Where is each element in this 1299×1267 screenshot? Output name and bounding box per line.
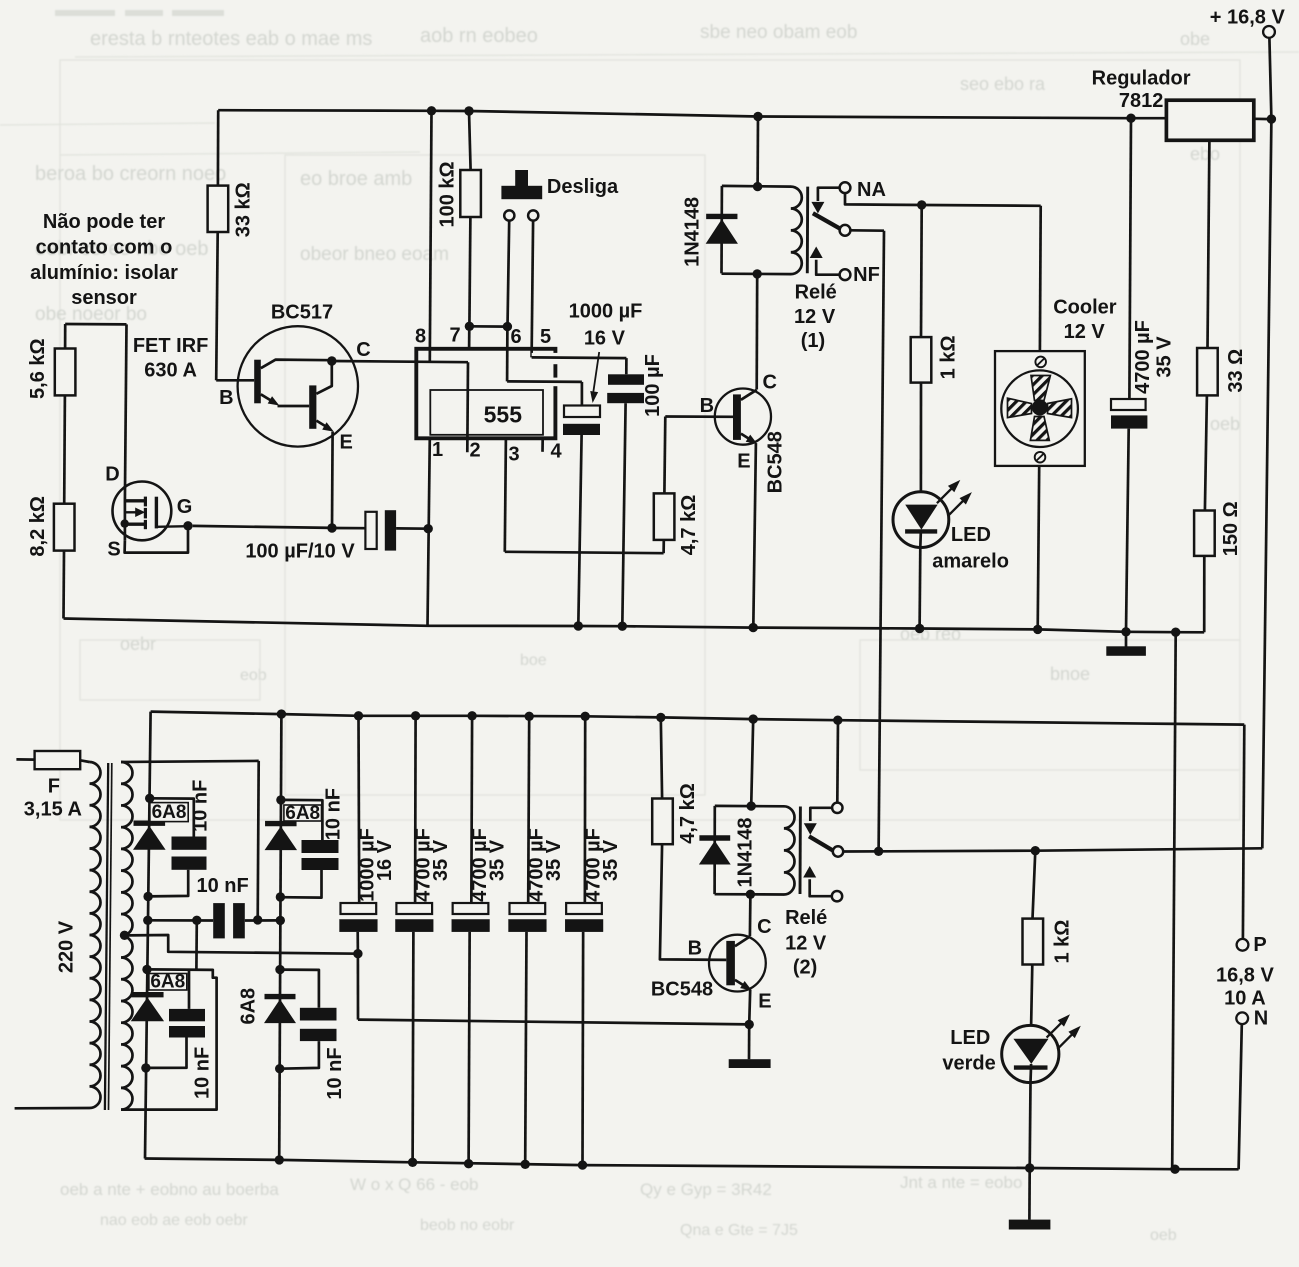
svg-text:6A8: 6A8 (152, 802, 187, 823)
svg-text:100 kΩ: 100 kΩ (437, 161, 459, 227)
svg-text:C: C (762, 372, 776, 394)
svg-text:150 Ω: 150 Ω (1220, 501, 1242, 556)
svg-text:Regulador: Regulador (1092, 67, 1191, 89)
svg-text:1 kΩ: 1 kΩ (938, 335, 960, 379)
svg-text:5: 5 (540, 326, 551, 348)
svg-text:verde: verde (942, 1052, 995, 1074)
svg-text:100 µF/10 V: 100 µF/10 V (245, 541, 355, 563)
svg-text:35 V: 35 V (1154, 336, 1176, 378)
svg-text:+ 16,8 V: + 16,8 V (1210, 6, 1286, 28)
svg-text:sensor: sensor (71, 287, 137, 309)
svg-text:10 nF: 10 nF (196, 875, 248, 897)
svg-text:6A8: 6A8 (238, 988, 260, 1025)
svg-text:10 nF: 10 nF (322, 788, 344, 840)
svg-text:1: 1 (432, 439, 443, 461)
svg-text:C: C (757, 916, 771, 938)
svg-text:10 nF: 10 nF (190, 780, 212, 832)
svg-text:bnoe: bnoe (1050, 664, 1090, 684)
svg-text:F: F (48, 776, 60, 798)
svg-text:P: P (1253, 934, 1266, 956)
svg-text:100 µF: 100 µF (642, 354, 664, 417)
svg-text:eob: eob (240, 667, 267, 684)
svg-text:Relé: Relé (795, 281, 837, 303)
svg-text:35 V: 35 V (600, 839, 622, 881)
svg-text:oeb reo: oeb reo (900, 624, 961, 644)
svg-text:8: 8 (415, 326, 426, 348)
svg-text:33 kΩ: 33 kΩ (233, 182, 255, 237)
svg-text:alumínio: isolar: alumínio: isolar (30, 262, 178, 284)
svg-text:sbe neo obam eob: sbe neo obam eob (700, 22, 857, 43)
svg-text:B: B (700, 395, 714, 417)
svg-text:beroa bo creorn noeo: beroa bo creorn noeo (35, 163, 226, 185)
svg-text:BC548: BC548 (765, 431, 787, 493)
svg-text:W o x Q 66 - eob: W o x Q 66 - eob (350, 1175, 479, 1194)
svg-text:3: 3 (508, 444, 519, 466)
svg-text:4: 4 (550, 441, 562, 463)
svg-text:16 V: 16 V (374, 839, 396, 881)
svg-text:(2): (2) (793, 957, 817, 979)
svg-text:beob no eobr: beob no eobr (420, 1217, 515, 1234)
svg-text:nao eob ae eob oebr: nao eob ae eob oebr (100, 1212, 248, 1229)
svg-text:contato com o: contato com o (36, 236, 173, 258)
svg-text:1 kΩ: 1 kΩ (1052, 920, 1074, 964)
svg-text:Cooler: Cooler (1053, 297, 1117, 319)
svg-text:aob rn eobeo: aob rn eobeo (420, 25, 538, 47)
svg-text:Não pode ter: Não pode ter (43, 211, 165, 233)
svg-text:Relé: Relé (785, 907, 827, 929)
svg-text:4,7 kΩ: 4,7 kΩ (678, 495, 700, 556)
svg-text:N: N (1254, 1007, 1268, 1029)
svg-text:C: C (356, 339, 370, 361)
svg-text:10 nF: 10 nF (191, 1047, 213, 1099)
svg-text:16,8 V: 16,8 V (1216, 964, 1274, 986)
svg-text:Jnt a nte = eobo: Jnt a nte = eobo (900, 1173, 1022, 1192)
svg-text:E: E (340, 432, 353, 454)
svg-text:LED: LED (950, 1027, 990, 1049)
svg-text:35 V: 35 V (543, 839, 565, 881)
svg-text:eresta b rnteotes eab o mae ms: eresta b rnteotes eab o mae ms (90, 28, 372, 50)
svg-text:ebo: ebo (1190, 144, 1220, 164)
svg-text:33 Ω: 33 Ω (1225, 349, 1247, 393)
svg-text:FET IRF: FET IRF (133, 335, 209, 357)
svg-text:D: D (105, 464, 119, 486)
svg-text:10 A: 10 A (1224, 988, 1266, 1010)
svg-text:seo ebo ra: seo ebo ra (960, 74, 1046, 94)
svg-text:6A8: 6A8 (150, 972, 185, 993)
svg-text:B: B (219, 387, 233, 409)
svg-text:5,6 kΩ: 5,6 kΩ (27, 338, 49, 399)
svg-text:35 V: 35 V (430, 839, 452, 881)
svg-text:Desliga: Desliga (547, 176, 619, 198)
svg-text:oeb: oeb (1150, 1227, 1177, 1244)
svg-text:2: 2 (469, 440, 480, 462)
svg-text:4,7 kΩ: 4,7 kΩ (677, 783, 699, 844)
svg-text:boe: boe (520, 652, 547, 669)
svg-text:G: G (177, 496, 193, 518)
svg-text:555: 555 (484, 402, 523, 428)
svg-text:BC548: BC548 (651, 979, 713, 1001)
svg-text:7: 7 (449, 325, 460, 347)
svg-text:6: 6 (510, 326, 521, 348)
svg-text:Qy e Gyp = 3R42: Qy e Gyp = 3R42 (640, 1180, 772, 1199)
svg-text:E: E (737, 451, 750, 473)
svg-text:220 V: 220 V (55, 920, 77, 973)
svg-text:NA: NA (857, 179, 886, 201)
svg-text:obe: obe (1180, 29, 1210, 49)
svg-text:16 V: 16 V (584, 328, 626, 350)
svg-text:10 nF: 10 nF (324, 1047, 346, 1099)
svg-text:630 A: 630 A (144, 359, 197, 381)
svg-text:oeb: oeb (1210, 414, 1240, 434)
svg-text:7812: 7812 (1119, 90, 1164, 112)
svg-text:oebr: oebr (120, 634, 156, 654)
svg-text:(1): (1) (801, 330, 825, 352)
svg-text:B: B (688, 937, 702, 959)
svg-text:NF: NF (853, 264, 880, 286)
svg-text:eo broe amb: eo broe amb (300, 168, 412, 190)
svg-text:S: S (107, 539, 120, 561)
svg-text:Qna e Gte = 7J5: Qna e Gte = 7J5 (680, 1222, 798, 1239)
svg-text:8,2 kΩ: 8,2 kΩ (27, 496, 49, 557)
svg-text:35 V: 35 V (486, 839, 508, 881)
svg-text:obeor bneo eoam: obeor bneo eoam (300, 244, 449, 265)
svg-text:E: E (758, 990, 771, 1012)
svg-text:3,15 A: 3,15 A (24, 798, 82, 820)
svg-text:12 V: 12 V (1064, 321, 1106, 343)
svg-text:4700 µF: 4700 µF (1132, 320, 1154, 394)
svg-text:amarelo: amarelo (932, 550, 1009, 572)
svg-text:12 V: 12 V (785, 932, 827, 954)
svg-text:BC517: BC517 (271, 302, 333, 324)
svg-text:1N4148: 1N4148 (681, 197, 703, 267)
svg-text:1N4148: 1N4148 (734, 817, 756, 887)
svg-text:LED: LED (951, 524, 991, 546)
svg-text:oeb a nte + eobno au boerba: oeb a nte + eobno au boerba (60, 1180, 279, 1199)
svg-text:6A8: 6A8 (285, 803, 320, 824)
svg-text:1000 µF: 1000 µF (569, 301, 643, 323)
svg-text:12 V: 12 V (794, 306, 836, 328)
